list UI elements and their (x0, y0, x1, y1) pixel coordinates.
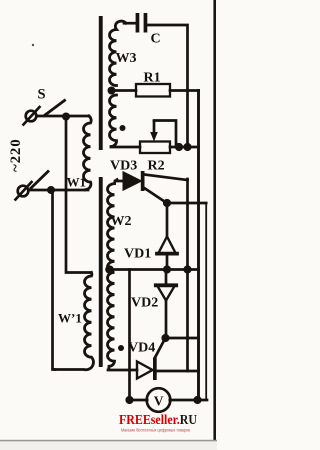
W2 center tap node (105, 265, 114, 274)
svg-text:VD1: VD1 (124, 247, 151, 262)
svg-text:VD3: VD3 (110, 159, 137, 174)
switch S blade (bottom pole) (31, 172, 48, 189)
node dot VD2 bottom (161, 334, 169, 342)
bottom gray rule (0, 440, 217, 442)
winding W3 lower section (110, 95, 117, 147)
resistor R2 (140, 142, 170, 154)
switch S blade (top pole) (45, 101, 65, 116)
wire capacitor to right corner (147, 25, 188, 147)
wire top mains to W1 (37, 115, 90, 118)
svg-text:FREEseller.RU: FREEseller.RU (119, 412, 197, 427)
secondary right bus (205, 203, 207, 400)
svg-text:W3: W3 (116, 51, 137, 66)
drop from tap row to V meter (128, 270, 131, 401)
voltmeter V (130, 388, 208, 412)
svg-text:R1: R1 (144, 71, 161, 86)
svg-text:VD4: VD4 (128, 341, 155, 356)
svg-text:~220: ~220 (8, 138, 24, 172)
svg-text:W1: W1 (67, 175, 87, 190)
transformer core (upper segment) (99, 16, 103, 150)
R2 wiper arrow (150, 121, 176, 146)
svg-text:W’1: W’1 (58, 311, 82, 326)
winding W'1 (55, 273, 93, 370)
node: W3 tap to R1 (108, 87, 116, 95)
node dot VD3/VD1 (163, 199, 171, 207)
wire node row y203 (167, 202, 206, 205)
svg-text:V: V (154, 394, 164, 409)
node dot V right (193, 396, 201, 404)
winding W3 upper section (110, 21, 127, 85)
diode VD3 (thyristor-style, filled) (115, 171, 188, 203)
main right bus (from R1 down to V meter) (197, 91, 200, 400)
polarity dot W3 (120, 125, 126, 131)
node dot on bottom mains wire (47, 186, 55, 194)
row y338 (166, 337, 199, 340)
svg-text:R2: R2 (148, 159, 165, 174)
node dot V left (125, 396, 133, 404)
terminal X1 (top mains pin) (24, 107, 40, 125)
terminal X2 (bottom mains pin) (16, 182, 32, 200)
diode VD1 (points up) (157, 203, 177, 270)
transformer core (lower segment) (99, 177, 103, 367)
winding W1 (84, 116, 92, 190)
node row y147: W3 bottom to R2 to bus (111, 146, 140, 149)
svg-text:Магазин бесплатных цифровых то: Магазин бесплатных цифровых товаров (121, 428, 190, 433)
svg-text:W2: W2 (111, 214, 132, 229)
resistor R1 (112, 84, 199, 97)
junction dot (wiper/R2 node) (175, 143, 183, 151)
svg-text:VD2: VD2 (131, 296, 158, 311)
polarity dot W2 (118, 345, 124, 351)
junction dot (cap drop node) (183, 143, 191, 151)
vertical from VD3 out down to VD4 row (186, 179, 189, 371)
svg-text:S: S (38, 87, 46, 103)
capacitor C plates (136, 13, 140, 33)
node dot on top mains wire (62, 113, 70, 121)
wire W3 top to capacitor (124, 22, 136, 25)
wire x52 down to W'1 bottom (51, 190, 55, 370)
svg-text:C: C (151, 32, 161, 47)
wire bottom mains to W1 (29, 189, 89, 192)
node dot VD1 bottom (163, 265, 171, 273)
wire x66 down to W'1 top (66, 117, 91, 273)
node dot tap row / VD3-out bus (183, 265, 191, 273)
speck (32, 44, 34, 46)
winding W2 (108, 180, 118, 369)
diode VD4 (points right) (108, 342, 199, 381)
right page border (213, 0, 216, 441)
diode VD2 (points down) (156, 270, 176, 339)
tap row y269 (110, 268, 199, 271)
